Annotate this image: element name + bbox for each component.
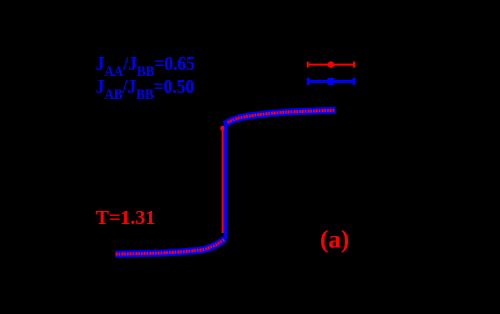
svg-text:T=1.31: T=1.31 — [96, 207, 156, 229]
svg-text:(a): (a) — [320, 227, 349, 254]
